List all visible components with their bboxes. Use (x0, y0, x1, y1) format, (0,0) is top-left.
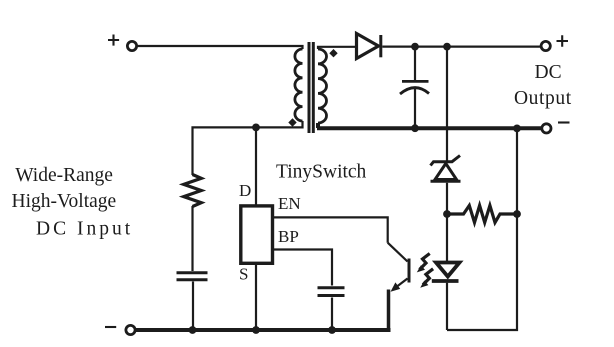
svg-text:Output: Output (514, 88, 572, 109)
svg-text:TinySwitch: TinySwitch (276, 161, 367, 182)
svg-text:Wide-Range: Wide-Range (15, 165, 113, 186)
svg-text:High-Voltage: High-Voltage (12, 191, 117, 212)
svg-text:D: D (239, 181, 251, 200)
svg-text:EN: EN (278, 194, 301, 213)
svg-text:DC Input: DC Input (36, 219, 133, 240)
svg-text:S: S (239, 265, 248, 284)
svg-text:BP: BP (278, 227, 299, 246)
svg-text:DC: DC (535, 62, 562, 83)
